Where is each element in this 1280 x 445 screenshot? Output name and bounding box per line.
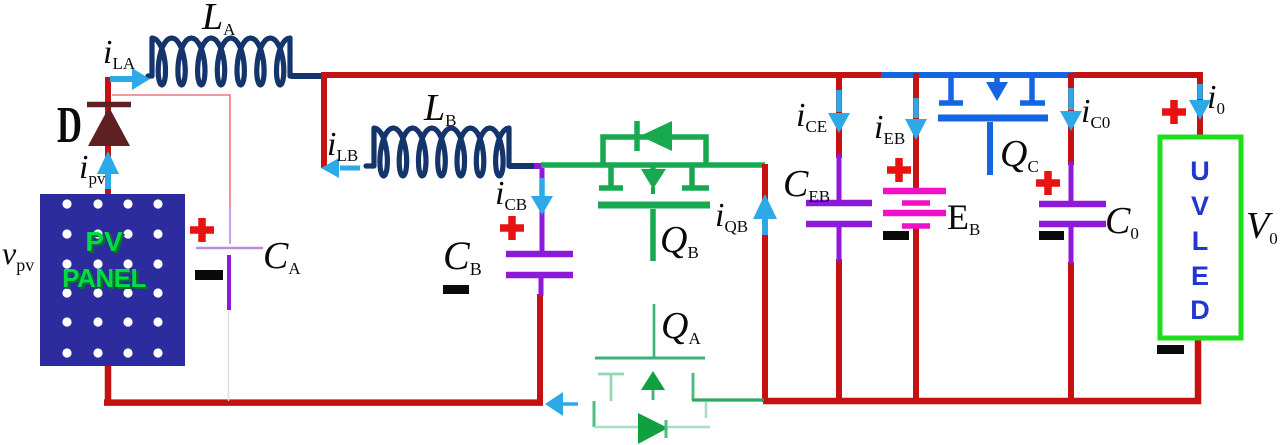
- capacitor CA: [196, 248, 263, 310]
- plus output: [1162, 100, 1186, 124]
- arrow iLA: [110, 68, 150, 90]
- wire red CEB branch top: [836, 73, 842, 158]
- minus CA: [195, 270, 223, 280]
- svg-text:E: E: [1191, 261, 1209, 291]
- wire red iQB vertical: [762, 164, 768, 402]
- wire bottom left red: [104, 361, 543, 403]
- inductor LB: [366, 128, 514, 176]
- mosfet QB: [598, 121, 710, 261]
- wire red CB vertical to bottom: [537, 294, 543, 405]
- inductor LA: [148, 38, 296, 85]
- mosfet QA: [594, 304, 764, 444]
- arrow i0: [1189, 84, 1211, 120]
- wire top blue segment: [881, 72, 1076, 78]
- wire top red main: [321, 72, 884, 78]
- svg-text:PANEL: PANEL: [62, 263, 146, 293]
- capacitor CEB: [806, 154, 872, 261]
- arrow iLB: [321, 158, 360, 178]
- wire green QB rail: [541, 162, 765, 168]
- arrow iCB: [531, 178, 553, 215]
- node purple junction LB/CB: [534, 163, 543, 169]
- plus CA: [190, 218, 214, 242]
- arrow iC0: [1060, 88, 1082, 131]
- minus output: [1157, 345, 1184, 354]
- arrow iEB: [905, 98, 927, 140]
- wire red diode vertical: [105, 77, 111, 196]
- arrow iQB: [753, 194, 777, 235]
- svg-text:L: L: [1192, 226, 1209, 256]
- svg-text:D: D: [1190, 295, 1210, 325]
- diode D: [87, 105, 131, 147]
- wire red vertical left drop: [321, 73, 327, 168]
- wire red C0 branch bottom: [1068, 262, 1074, 403]
- wire navy after LB: [509, 163, 536, 169]
- plus EB: [887, 158, 911, 182]
- minus C0: [1039, 231, 1064, 240]
- svg-text:PV: PV: [85, 226, 123, 257]
- arrow substrate QB: [641, 169, 666, 189]
- capacitor C0: [1039, 162, 1106, 264]
- plus CB: [500, 216, 524, 240]
- wire red CEB branch bottom: [836, 259, 842, 403]
- wire lavender CA top lead: [229, 206, 231, 244]
- PV panel: [40, 194, 185, 366]
- arrow ipv: [97, 151, 119, 189]
- svg-text:V: V: [1191, 191, 1209, 221]
- minus CB: [443, 285, 469, 294]
- arrow substrate QC: [986, 82, 1008, 101]
- wire navy after LA: [291, 73, 326, 79]
- battery EB: [883, 191, 946, 226]
- svg-text:D: D: [57, 97, 82, 154]
- wire red C0 branch top: [1068, 73, 1074, 165]
- capacitor CB: [506, 168, 573, 296]
- wire thin red to CA: [112, 95, 230, 208]
- wire top right red to output: [1073, 72, 1200, 137]
- minus EB: [883, 231, 909, 240]
- svg-text:U: U: [1190, 156, 1210, 186]
- plus C0: [1036, 171, 1060, 195]
- arrow iCE: [828, 90, 850, 133]
- mosfet QC: [938, 75, 1048, 175]
- arrow ground left: [545, 392, 578, 416]
- wire red EB branch top: [913, 73, 919, 403]
- diode body QB: [640, 121, 672, 151]
- wire faint CA bottom to ground: [228, 310, 230, 401]
- UVLED box: [1160, 137, 1241, 338]
- wire bottom right red: [763, 338, 1201, 404]
